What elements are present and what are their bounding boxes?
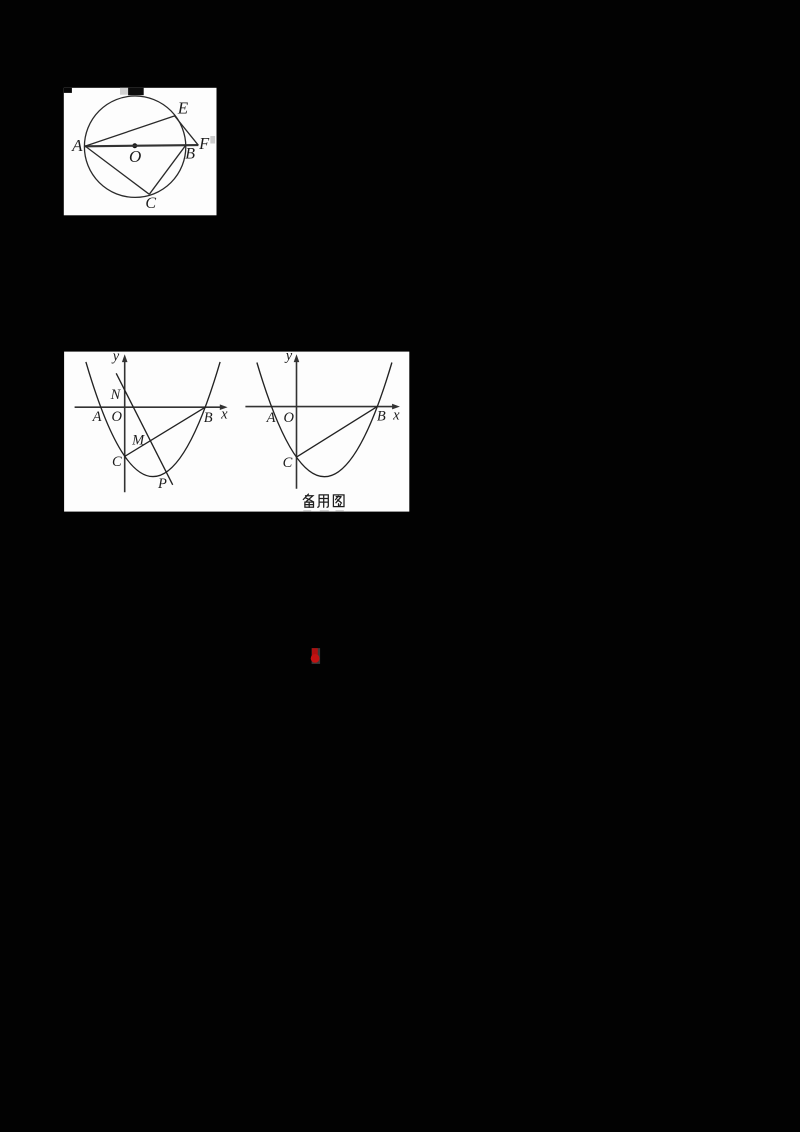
line C-B (right graph) [297, 407, 378, 458]
line C-B (left graph) [125, 407, 206, 456]
figure 2 white box (two parabola graphs) [64, 352, 409, 512]
line N-P (left graph) [116, 373, 173, 485]
right graph x-axis arrowhead [392, 404, 400, 410]
svg-text:B: B [377, 409, 386, 425]
svg-text:C: C [112, 454, 122, 470]
svg-text:A: A [266, 410, 276, 426]
svg-text:y: y [284, 348, 293, 364]
chord C-B [149, 145, 185, 194]
glyph 备 [303, 494, 313, 502]
left parabola [86, 362, 220, 477]
svg-text:x: x [392, 407, 400, 423]
caption 备用图 (hand-drawn glyphs) [303, 494, 344, 507]
right graph x-axis [245, 406, 394, 408]
left graph x-axis arrowhead [220, 404, 228, 410]
svg-text:O: O [284, 410, 295, 426]
segment E-F [175, 116, 199, 145]
scan artifact: black square at top of box1 [128, 88, 144, 95]
svg-text:O: O [129, 147, 141, 166]
scan artifact: gray square at top of box1 [120, 88, 128, 95]
left graph y-axis [124, 360, 126, 493]
right parabola [257, 363, 392, 477]
svg-text:C: C [283, 455, 293, 471]
center dot O [132, 143, 137, 148]
right graph y-axis arrowhead [294, 354, 300, 362]
chord A-C [85, 146, 149, 194]
svg-text:C: C [145, 195, 156, 212]
svg-text:F: F [198, 134, 210, 153]
glyph 用 [318, 495, 329, 507]
svg-text:x: x [220, 406, 228, 422]
svg-text:y: y [111, 349, 120, 365]
svg-text:N: N [110, 387, 122, 403]
red mark: vertical red bar [312, 648, 318, 656]
right graph y-axis [296, 360, 298, 489]
red mark: red blob [311, 654, 320, 663]
svg-text:O: O [112, 409, 123, 425]
figure 1 white box (circle figure) [64, 88, 217, 216]
glyph 图 [333, 495, 344, 507]
svg-text:A: A [92, 409, 102, 425]
svg-text:P: P [157, 476, 167, 492]
chord A-E [85, 116, 174, 146]
svg-text:A: A [71, 136, 83, 155]
circle O [84, 96, 185, 197]
svg-text:M: M [131, 432, 145, 448]
red mark: dark gray backing rect [312, 648, 321, 664]
scan artifact: gray square right of F [210, 136, 215, 144]
scan artifact: black notch top-left corner of box1 [64, 88, 72, 93]
left graph x-axis [75, 406, 222, 408]
faint gray underline under caption (three segments) [303, 510, 311, 511]
svg-text:E: E [177, 98, 189, 117]
left graph y-axis arrowhead [122, 354, 128, 362]
svg-text:B: B [185, 146, 195, 163]
svg-text:B: B [204, 410, 213, 426]
diameter line A-B extended to F [85, 145, 199, 146]
